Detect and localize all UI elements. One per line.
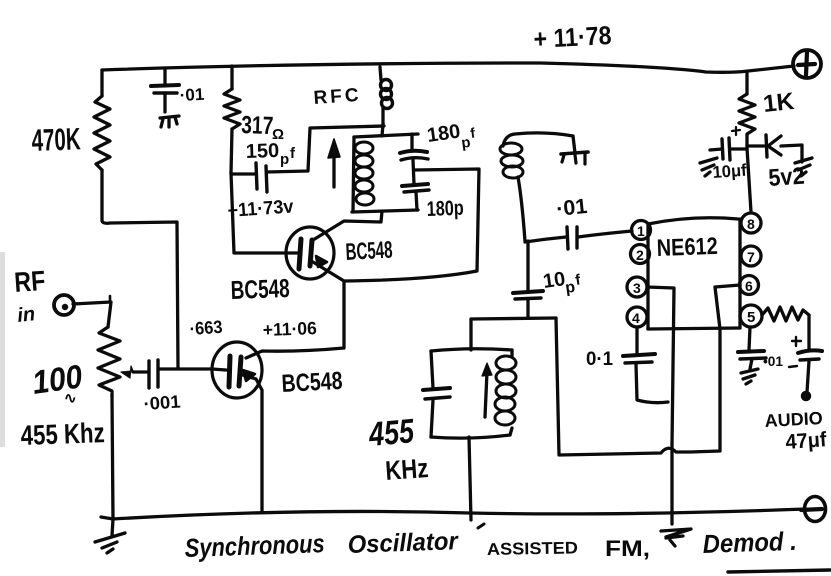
capacitor 180p lower plates	[402, 184, 429, 210]
svg-text:3: 3	[633, 280, 641, 296]
capacitor .01 plates	[151, 85, 179, 112]
svg-text:RFC: RFC	[313, 85, 362, 109]
ground zener	[795, 158, 812, 176]
wire pin4 down to 0.1 cap	[635, 327, 638, 353]
svg-text:+ 11·78: + 11·78	[533, 20, 612, 54]
label 317 ohm	[241, 111, 284, 143]
wire pin6 into box	[715, 285, 740, 329]
wire RFC bottom into transformer top	[382, 124, 383, 136]
wire tank top feed and across to pin6 riser	[471, 318, 556, 350]
ground crow-foot top middle	[561, 136, 588, 164]
label AUDIO	[764, 408, 823, 431]
pin 6	[740, 276, 759, 295]
svg-text:455 Khz: 455 Khz	[20, 417, 105, 451]
ground pin5 cap	[741, 369, 758, 384]
label 47uf	[785, 428, 828, 454]
svg-text:5v2: 5v2	[768, 163, 806, 192]
pin 3	[627, 277, 647, 297]
label .01 top-left	[179, 85, 205, 105]
label 455 KHz big	[367, 412, 430, 486]
capacitor .001	[133, 360, 212, 388]
terminal audio out dot	[802, 392, 811, 401]
svg-text:455: 455	[367, 412, 417, 454]
inductor tank coil	[495, 356, 516, 425]
capacitor 10uf decoupling	[710, 127, 747, 160]
transistor Q2 BC548	[212, 342, 262, 511]
svg-text:100: 100	[30, 357, 85, 401]
label BC548 Q2	[281, 367, 343, 398]
IC U1 NE612 box	[648, 218, 740, 329]
label .001	[143, 391, 181, 414]
resistor output after pin5	[762, 307, 809, 321]
wire caps midpoint to right and down to Q1 emitter node	[344, 169, 479, 281]
pin 4	[627, 307, 647, 327]
svg-text:f: f	[469, 124, 476, 141]
svg-text:BC548: BC548	[230, 273, 290, 305]
pin 1	[632, 221, 651, 240]
resistor 317	[224, 89, 240, 129]
svg-text:47μf: 47μf	[785, 428, 828, 454]
svg-text:1: 1	[637, 223, 645, 239]
label +11.06	[262, 318, 317, 340]
svg-text:0·1: 0·1	[586, 349, 613, 370]
pin 2	[631, 245, 650, 264]
label 0.1	[586, 349, 613, 370]
ground 10uf	[700, 158, 717, 176]
inductor RFC	[380, 67, 393, 124]
label 1K	[762, 88, 796, 118]
capacitor 10pf	[513, 241, 543, 317]
tick before ASSISTED	[478, 524, 484, 528]
svg-text:2: 2	[636, 247, 644, 263]
wire Q1 emitter node down and left to Q2 collector	[246, 281, 344, 358]
svg-text:5: 5	[747, 309, 755, 326]
pin 7	[741, 246, 761, 266]
label 10pf	[542, 268, 583, 297]
svg-text:·01: ·01	[179, 85, 205, 105]
label .01 pin5	[763, 353, 783, 369]
wire pin8 up to supply node	[747, 148, 751, 212]
scan edge artifact	[0, 252, 5, 447]
label RFC	[313, 85, 362, 109]
pin 8	[741, 213, 761, 233]
pin 5	[740, 305, 762, 327]
label RF in	[13, 265, 46, 327]
wire pot bottom to ground rail	[112, 396, 113, 519]
svg-text:RF: RF	[13, 265, 46, 298]
svg-text:8: 8	[747, 216, 755, 232]
inductor L osc top	[500, 133, 573, 241]
capacitor .01 pin5 to ground	[738, 327, 766, 369]
wire 317 bottom to 150pf node	[231, 129, 232, 173]
wire tank bottom to rail	[469, 437, 471, 520]
label 5v2	[768, 163, 806, 192]
svg-text:in: in	[16, 303, 36, 327]
svg-text:10μf: 10μf	[712, 161, 748, 182]
wire left vertical from rail to 470K	[100, 70, 103, 96]
svg-text:ASSISTED: ASSISTED	[487, 538, 578, 559]
diode zener 5v2	[747, 135, 802, 162]
label .663	[189, 317, 223, 339]
svg-text:470K: 470K	[31, 121, 82, 158]
svg-text:AUDIO: AUDIO	[764, 408, 823, 431]
svg-text:NE612: NE612	[656, 233, 718, 262]
svg-text:180p: 180p	[426, 197, 464, 221]
svg-text:6: 6	[745, 278, 753, 294]
wire top supply rail	[102, 63, 794, 72]
terminal minus (supply -)	[801, 497, 826, 522]
node +11.78 label	[533, 20, 612, 54]
capacitor 47uf	[789, 337, 822, 392]
label BC548 Q1 right	[345, 237, 393, 266]
wire pin3 to ground line	[647, 287, 674, 524]
label 150pf	[245, 140, 296, 168]
wire transformer bottom to Q1 collector	[313, 211, 382, 240]
svg-text:BC548: BC548	[281, 367, 343, 398]
svg-text:·001: ·001	[143, 391, 181, 414]
svg-text:1K: 1K	[762, 88, 796, 118]
capacitor tank left	[423, 388, 450, 399]
terminal RF input	[54, 295, 74, 315]
label 180pf	[426, 121, 477, 152]
wire RF terminal to pot top	[73, 296, 111, 327]
svg-text:Demod .: Demod .	[702, 526, 797, 559]
label Demod	[702, 526, 797, 559]
wire rail to 317 resistor	[230, 66, 233, 89]
svg-text:7: 7	[747, 249, 755, 265]
svg-text:FM,: FM,	[605, 536, 650, 561]
ground bottom middle	[661, 529, 691, 546]
svg-text:f: f	[574, 271, 582, 289]
capacitor .01 top-left stub	[163, 70, 166, 86]
wire base node down to transistor Q1 base	[231, 173, 287, 253]
wire 470K bottom down and step right then down to base node	[102, 170, 178, 368]
ground left end	[95, 519, 125, 553]
svg-text:10: 10	[542, 268, 567, 293]
svg-text:Synchronous: Synchronous	[184, 528, 325, 563]
svg-text:BC548: BC548	[345, 237, 393, 266]
arrow tank tuning	[482, 363, 492, 417]
capacitor 150pf plates	[256, 163, 267, 192]
transistor Q1 BC548	[286, 227, 344, 281]
svg-text:p: p	[280, 151, 289, 168]
label Synchronous Oscillator	[184, 527, 459, 563]
svg-text:Oscillator: Oscillator	[347, 527, 459, 559]
label 100 ohm	[30, 357, 85, 407]
line bottom right frame	[728, 570, 830, 572]
label 10uf	[712, 161, 748, 182]
svg-text:150: 150	[245, 140, 279, 163]
wire 150pf right side up to tank top node	[267, 126, 384, 172]
svg-text:4: 4	[632, 310, 640, 326]
capacitor 180pf upper plates	[400, 151, 428, 184]
label ASSISTED FM	[487, 536, 650, 561]
ground below .01 cap	[160, 116, 179, 127]
label .01 mid	[555, 195, 589, 221]
svg-text:f: f	[290, 145, 296, 162]
svg-text:•01: •01	[763, 353, 783, 369]
svg-text:+11·73v: +11·73v	[227, 196, 295, 222]
svg-text:317: 317	[241, 111, 274, 140]
svg-text:180: 180	[426, 121, 462, 147]
tank circuit 455KHz box	[431, 349, 512, 438]
svg-text:∿: ∿	[64, 390, 77, 407]
capacitor .01 coupling to pin1	[525, 227, 632, 249]
capacitor 0.1	[623, 354, 668, 403]
svg-text:·01: ·01	[555, 195, 589, 221]
svg-text:·663: ·663	[189, 317, 223, 339]
wire tank node riser to pin6 horizontal	[556, 318, 720, 455]
potentiometer 100 ohm	[98, 327, 133, 396]
wire bottom ground rail	[101, 509, 806, 519]
label +11.73v	[227, 196, 295, 222]
svg-text:+11·06: +11·06	[262, 318, 317, 340]
label 455 Khz	[20, 417, 105, 451]
wire rail down to 1K	[745, 72, 748, 94]
label 470K	[31, 121, 82, 158]
resistor 1K	[739, 94, 755, 148]
transformer T1 455KHz can	[352, 134, 418, 212]
terminal plus (supply +)	[793, 50, 821, 78]
label BC548 Q1 left	[230, 273, 290, 305]
arrow transformer tuning	[328, 139, 340, 187]
label NE612	[656, 233, 718, 262]
wire resistor to 47uf cap	[807, 315, 810, 351]
svg-text:KHz: KHz	[384, 453, 429, 486]
label 180p	[426, 197, 464, 221]
resistor 470K	[94, 96, 110, 170]
wire node to 150pf cap	[232, 172, 255, 175]
